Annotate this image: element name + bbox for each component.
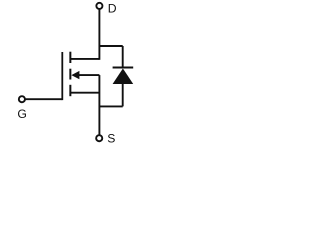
terminal G circle	[19, 96, 25, 102]
diode D1 anode triangle	[113, 69, 134, 85]
terminal D circle	[96, 3, 102, 9]
wire diode branch lower vertical	[122, 83, 124, 106]
wire source vertical	[98, 75, 100, 135]
wire drain-to-channel top connector	[70, 58, 99, 60]
terminal S circle	[96, 135, 102, 141]
diode D1 cathode bar	[113, 67, 134, 69]
wire diode return horizontal	[99, 105, 122, 107]
wire gate horizontal	[25, 98, 62, 100]
wire drain vertical	[98, 8, 100, 60]
transistor Q1 gate plate	[61, 52, 63, 100]
wire source-to-channel bottom connector	[70, 92, 99, 94]
wire drain-to-diode horizontal	[99, 45, 122, 47]
wire diode branch upper vertical	[122, 46, 124, 67]
svg-text:G: G	[17, 107, 26, 121]
transistor Q1 channel segment top	[69, 52, 71, 63]
transistor Q1 body arrow	[71, 71, 79, 79]
wire body connector horizontal	[78, 74, 99, 76]
svg-text:S: S	[107, 132, 115, 146]
transistor Q1 channel segment middle	[69, 69, 71, 80]
transistor Q1 channel segment bottom	[69, 85, 71, 96]
svg-text:D: D	[108, 1, 117, 15]
